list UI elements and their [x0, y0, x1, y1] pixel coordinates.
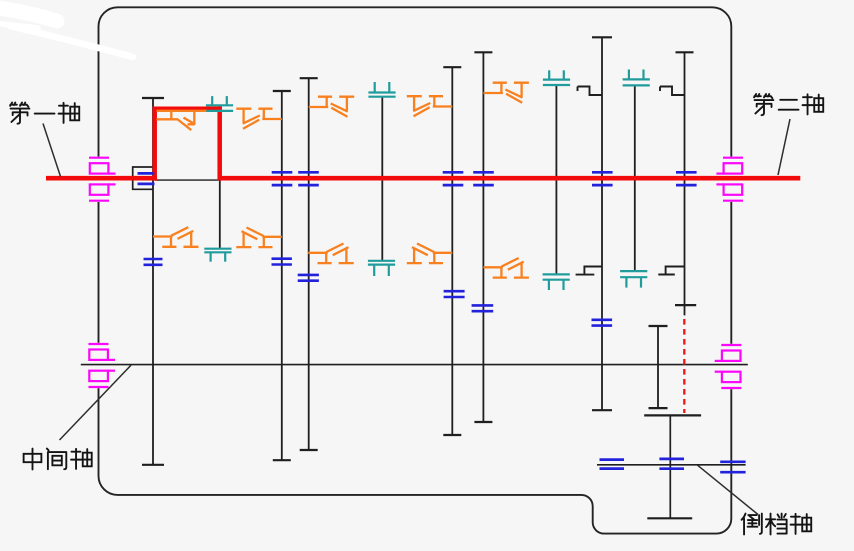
teal sleeve above G8	[543, 70, 570, 85]
synchronizer glyph below-right of G7	[483, 258, 529, 278]
mesh pair G9	[592, 320, 613, 326]
leader line for second shaft label	[778, 119, 790, 175]
first/second shaft red axis line (left segment)	[46, 176, 157, 181]
main-shaft blue pair at G7	[473, 172, 494, 185]
bearing: second shaft at housing right	[716, 157, 743, 202]
reverse engagement red dashed line	[683, 319, 685, 413]
synchronizer glyph above G1 (inside highlight, custom)	[157, 111, 207, 130]
spline mesh on input gear (blue pair, x~146)	[138, 173, 155, 184]
main-shaft blue pair at G3	[272, 172, 293, 185]
leader line for reverse shaft label	[698, 465, 759, 514]
gear line G6 (x=452.3)	[443, 67, 461, 435]
synchronizer glyph above-right of G4	[309, 97, 355, 117]
mesh pair G3	[272, 259, 292, 265]
main-shaft blue pair at G6	[443, 172, 464, 185]
synchronizer glyph below-left of G3	[236, 228, 282, 248]
gear line G7 (x=483.4)	[474, 52, 492, 422]
synchronizer glyph below-left of G6	[407, 244, 453, 264]
gear G11 lower tooth cap	[675, 304, 696, 306]
clutch hub C-bracket on first shaft	[133, 167, 153, 189]
teal sleeve above G2	[206, 96, 233, 111]
power flow highlight box (1st gear pair)	[155, 109, 220, 181]
intermediate shaft (counter shaft) line	[81, 364, 748, 366]
synchronizer glyph above-right of G7	[483, 83, 529, 103]
dog bracket below G9	[576, 267, 602, 275]
reverse shaft spline pair left	[600, 460, 625, 469]
white streak artifact top-left	[0, 7, 133, 57]
teal sleeve below G8	[543, 274, 570, 290]
dog bracket below G11	[658, 267, 684, 275]
main-shaft blue pair at G9	[592, 172, 613, 185]
reverse shaft line	[597, 464, 746, 466]
label 倒档轴 (reverse shaft)	[742, 514, 812, 535]
mesh pair G7	[472, 305, 494, 311]
bearing: first shaft at housing left	[89, 157, 116, 202]
leader line for intermediate shaft label	[60, 365, 132, 440]
reverse shaft bearing pair right	[720, 462, 745, 472]
main shaft thin black segment under highlight box	[155, 179, 220, 181]
gear line G5 sleeve column (x=382.3)	[381, 97, 383, 261]
label 第二轴 (second shaft)	[754, 94, 823, 115]
gear line G10 reverse sleeve column (x=634.8)	[634, 85, 636, 271]
leader line for first shaft label	[43, 124, 61, 177]
reverse output gear (x=670.3) wide top cap	[644, 414, 701, 416]
label 中间轴 (intermediate shaft)	[24, 449, 92, 470]
first/second shaft red axis line (right segment)	[218, 176, 801, 181]
reverse output gear vertical	[669, 415, 671, 518]
reverse shaft spline pair middle	[659, 459, 684, 469]
main-shaft blue pair at G11	[676, 172, 697, 185]
gearbox housing outline	[99, 7, 732, 533]
mesh pair G4	[298, 275, 319, 281]
synchronizer glyph below-right of G1	[153, 227, 199, 247]
teal sleeve below G5	[368, 261, 395, 276]
synchronizer glyph above-left of G6	[407, 96, 453, 116]
gear line G3 (x=281.8)	[273, 91, 291, 460]
gear line G11 (x=684.5)	[676, 52, 694, 315]
gear line G2 sliding sleeve column (x=219.8)	[219, 106, 221, 249]
teal sleeve below G10	[620, 271, 647, 288]
dog bracket above G11	[660, 87, 685, 96]
gear line G4 (x=308.7)	[300, 78, 318, 450]
bearing: counter shaft left	[88, 343, 115, 388]
reverse output gear bottom cap	[647, 517, 692, 519]
gear line G9 (x=602)	[592, 37, 612, 410]
dog bracket above G9	[578, 87, 603, 96]
teal sleeve below G2	[204, 249, 231, 262]
gear line G1 (x=153) input constant-mesh gear + counter gear	[142, 98, 164, 465]
bearing: counter shaft right	[715, 344, 742, 389]
synchronizer glyph above-left of G3	[236, 109, 282, 129]
mesh pair G1/counter gear	[144, 259, 163, 265]
reverse idler upper gear (x=658)	[649, 326, 668, 408]
gear line G8 sleeve column (x=556.4)	[555, 85, 557, 275]
label 第一轴 (first shaft)	[10, 103, 79, 124]
teal sleeve above G5	[368, 82, 395, 97]
mesh pair G6	[444, 291, 465, 297]
synchronizer glyph below-right of G4	[308, 244, 354, 264]
main-shaft blue pair at G4	[298, 172, 319, 185]
teal sleeve above G10	[623, 70, 650, 86]
